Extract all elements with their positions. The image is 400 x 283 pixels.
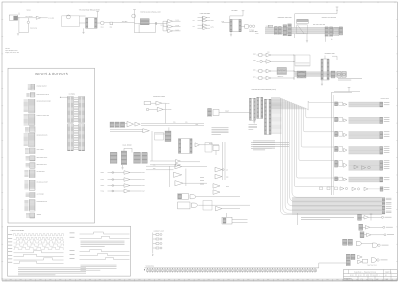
- svg-text:OUT: OUT: [142, 185, 145, 187]
- svg-text:CURRENT LOOP: CURRENT LOOP: [154, 231, 164, 233]
- svg-text:RESET: RESET: [225, 111, 229, 113]
- svg-text:OUT 2: OUT 2: [211, 26, 215, 28]
- svg-text:REDUCED INPUT: REDUCED INPUT: [37, 157, 48, 159]
- svg-text:Supply +5V,+12V,-12V: Supply +5V,+12V,-12V: [5, 52, 19, 54]
- svg-text:MEMORY MAP DECODE: MEMORY MAP DECODE: [322, 17, 336, 19]
- svg-text:CLK A: CLK A: [176, 20, 180, 22]
- svg-text:CLK B: CLK B: [176, 25, 180, 27]
- svg-text:CAS: CAS: [185, 122, 188, 124]
- svg-text:CTS: CTS: [153, 164, 156, 166]
- svg-text:SCALE: SCALE: [373, 275, 377, 277]
- svg-text:REFRESH LOGIC: REFRESH LOGIC: [153, 96, 165, 98]
- svg-text:OUTPUT BUS: OUTPUT BUS: [381, 98, 389, 100]
- svg-text:TO DB25: TO DB25: [249, 29, 254, 31]
- svg-text:SPARE: SPARE: [37, 214, 41, 216]
- svg-text:8/12/81: 8/12/81: [369, 278, 373, 280]
- svg-text:IN 1: IN 1: [193, 20, 196, 22]
- svg-text:IN 2: IN 2: [193, 26, 196, 28]
- svg-text:APPR: APPR: [366, 275, 369, 277]
- svg-text:EXPANSION BUS: EXPANSION BUS: [37, 201, 48, 203]
- svg-text:XCVR: XCVR: [255, 33, 258, 35]
- svg-text:KEYBOARD DATA: KEYBOARD DATA: [37, 134, 48, 136]
- svg-text:RS 232 AUX PORT: RS 232 AUX PORT: [37, 181, 48, 183]
- svg-text:RS 232 MAIN: RS 232 MAIN: [37, 171, 45, 173]
- svg-text:100087: 100087: [385, 278, 389, 280]
- svg-text:TXD B: TXD B: [101, 191, 105, 193]
- svg-text:REV: REV: [377, 278, 380, 280]
- svg-text:AUX VIDEO: AUX VIDEO: [37, 149, 44, 151]
- svg-text:DSR: DSR: [153, 168, 156, 170]
- svg-text:REED RLY: REED RLY: [278, 76, 284, 78]
- svg-text:MEMORY MAP: MEMORY MAP: [325, 53, 335, 55]
- svg-text:OUT: OUT: [142, 191, 145, 193]
- svg-text:CK. BY: CK. BY: [358, 275, 362, 277]
- svg-text:RAS: RAS: [173, 122, 176, 124]
- svg-text:RXD B: RXD B: [101, 185, 105, 187]
- svg-text:DISPLAY VIDEO SIG: DISPLAY VIDEO SIG: [37, 115, 49, 117]
- svg-text:INT: INT: [226, 169, 228, 171]
- svg-text:AC LINE IN: AC LINE IN: [26, 16, 33, 18]
- svg-text:OUT: OUT: [142, 179, 145, 181]
- svg-text:EIA: EIA: [268, 51, 270, 53]
- svg-text:SHEET 1/1: SHEET 1/1: [385, 272, 392, 274]
- svg-text:I/O PAIRS: I/O PAIRS: [69, 93, 75, 95]
- svg-text:DATA: DATA: [351, 278, 354, 280]
- svg-text:INPUTS & OUTPUTS: INPUTS & OUTPUTS: [35, 72, 68, 76]
- svg-text:REDUCED DATA: REDUCED DATA: [37, 164, 47, 166]
- svg-text:+5V REG: +5V REG: [122, 21, 128, 23]
- svg-text:TERMINATORS: TERMINATORS: [146, 266, 155, 268]
- svg-text:CLK C: CLK C: [176, 29, 180, 31]
- svg-text:TO XFMR: TO XFMR: [48, 18, 54, 20]
- svg-text:OUT 1: OUT 1: [211, 20, 215, 22]
- svg-text:TB 101: TB 101: [5, 48, 10, 50]
- svg-text:F101 2A SB: F101 2A SB: [30, 28, 37, 30]
- svg-text:WAIT: WAIT: [226, 186, 229, 188]
- svg-text:TXD A: TXD A: [101, 179, 105, 181]
- svg-text:DR. BY: DR. BY: [350, 275, 354, 277]
- svg-text:ELECTRONIC KEYB: ELECTRONIC KEYB: [37, 94, 49, 96]
- svg-text:BUS: BUS: [255, 31, 258, 33]
- svg-text:KEYBOARD ENCODER: KEYBOARD ENCODER: [37, 101, 51, 103]
- svg-text:RXD: RXD: [253, 53, 256, 55]
- svg-text:RFSH: RFSH: [166, 103, 169, 105]
- svg-text:DATE: DATE: [360, 278, 363, 280]
- svg-text:RTS: RTS: [253, 76, 256, 78]
- svg-text:Triple Output Power: Triple Output Power: [5, 50, 18, 52]
- svg-text:SW101: SW101: [27, 10, 32, 12]
- svg-text:RXD A: RXD A: [101, 172, 105, 174]
- svg-text:POWER SUPPLY: POWER SUPPLY: [37, 85, 47, 87]
- svg-text:RFSH EN: RFSH EN: [166, 109, 171, 111]
- svg-text:C2 33p: C2 33p: [161, 25, 165, 27]
- svg-text:Real Time Clock: Real Time Clock: [368, 265, 377, 267]
- svg-text:TXD: TXD: [253, 60, 256, 62]
- svg-text:C101: C101: [101, 27, 104, 29]
- svg-text:DTR: DTR: [253, 69, 256, 71]
- svg-text:CR1: CR1: [110, 27, 113, 29]
- svg-text:OUT: OUT: [142, 172, 145, 174]
- svg-text:AC POWER: AC POWER: [37, 194, 44, 196]
- svg-text:MUX: MUX: [196, 124, 199, 126]
- svg-text:TXD: TXD: [221, 21, 224, 23]
